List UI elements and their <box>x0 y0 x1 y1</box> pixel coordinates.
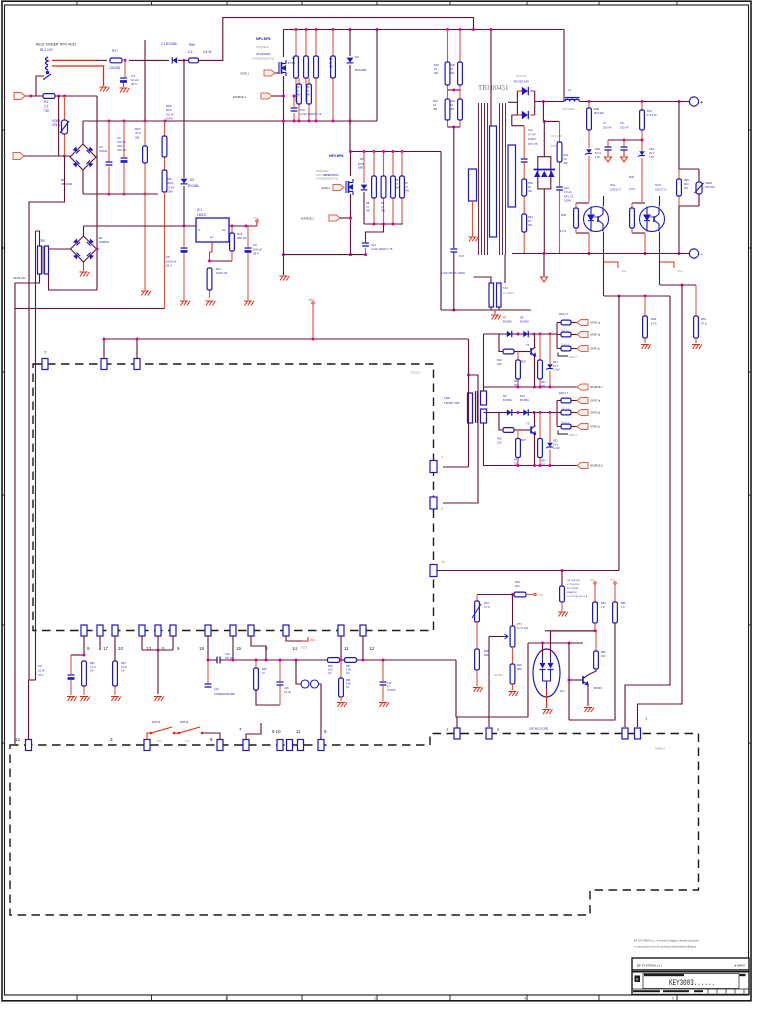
wire aux vertical <box>58 96 60 156</box>
resistor gate GATE 1a <box>557 322 561 324</box>
svg-text:VO: VO <box>222 229 226 232</box>
svg-text:GATE 1: GATE 1 <box>240 72 250 76</box>
wire base feed <box>499 334 503 352</box>
ground <box>154 697 164 702</box>
svg-text:TEST: TEST <box>301 647 308 650</box>
svg-text:4.7 K LIN: 4.7 K LIN <box>517 626 528 630</box>
svg-text:ca. 0801T: ca. 0801T <box>503 292 515 295</box>
connector GATE 2c <box>577 424 588 430</box>
svg-text:R44: R44 <box>528 215 533 219</box>
wire pin16 net <box>437 570 619 572</box>
svg-text:3W: 3W <box>684 186 688 190</box>
resistor R16 300 <box>230 226 235 261</box>
svg-text:WTH2: WTH2 <box>180 720 189 724</box>
pin 10 bottom <box>112 625 118 636</box>
svg-text:35A/600: 35A/600 <box>61 182 73 186</box>
svg-text:BY/08A: BY/08A <box>503 320 512 324</box>
svg-text:IN: IN <box>3 95 6 99</box>
svg-text:BF SYSTEMS s.r.l.: BF SYSTEMS s.r.l. <box>637 964 663 968</box>
zener DZ3 <box>639 151 645 155</box>
svg-text:103-03SAK: 103-03SAK <box>562 108 575 111</box>
svg-text:e comunicare a terzi il conten: e comunicare a terzi il contenuto del pr… <box>634 945 697 949</box>
svg-text:8: 8 <box>210 737 213 742</box>
svg-text:R57: R57 <box>346 665 351 668</box>
svg-text:VCC: VCC <box>610 579 615 582</box>
svg-text:22 uF: 22 uF <box>38 668 45 672</box>
svg-text:R29: R29 <box>517 663 522 667</box>
resistor R49 2.2K <box>632 202 645 204</box>
svg-text:DZ5: DZ5 <box>595 147 600 151</box>
svg-text:12: 12 <box>369 646 375 651</box>
svg-text:R46: R46 <box>684 178 689 182</box>
resistor base T3 <box>503 349 514 354</box>
svg-text:1 W: 1 W <box>595 155 600 159</box>
ground <box>469 237 479 242</box>
pin 4 right <box>430 461 437 473</box>
wire riser x377 <box>376 30 378 122</box>
resistor R28b 560 <box>476 622 478 649</box>
wire VCC bus into TRD <box>104 338 469 340</box>
wire R1 to vertical riser <box>55 95 97 97</box>
bridge rectifier B1 <box>70 144 96 170</box>
svg-text:R61: R61 <box>90 662 95 665</box>
svg-text:C12: C12 <box>387 682 392 685</box>
capacitor C5 1000uF <box>183 226 185 247</box>
svg-text:R3: R3 <box>306 85 310 89</box>
svg-text:GATE 1a: GATE 1a <box>590 322 601 325</box>
svg-text:4.7 K: 4.7 K <box>484 605 490 609</box>
svg-text:1000V: 1000V <box>564 199 572 203</box>
svg-text:2M: 2M <box>135 135 140 139</box>
svg-text:C1 BY/08A: C1 BY/08A <box>161 42 178 46</box>
wire MP3 bank bottom <box>364 223 403 225</box>
svg-text:VCC: VCC <box>253 216 259 220</box>
svg-text:R54: R54 <box>262 668 267 671</box>
resistor gate GATE 2b <box>557 412 561 414</box>
svg-text:R8: R8 <box>366 201 370 205</box>
wire long vertical to pin 1 <box>638 285 683 727</box>
svg-text:R4: R4 <box>292 56 296 60</box>
varistor VDR1 <box>64 96 66 120</box>
svg-text:470nF: 470nF <box>99 149 108 153</box>
svg-text:PT1: PT1 <box>517 622 522 626</box>
connector IN2 <box>13 153 24 160</box>
svg-text:300 1%: 300 1% <box>237 236 247 240</box>
svg-text:GATE 2c: GATE 2c <box>590 426 601 429</box>
wire B2 bottom to ground <box>83 262 85 271</box>
svg-text:W005G: W005G <box>99 240 110 244</box>
ground <box>280 276 290 281</box>
wire pin4b net <box>456 717 458 728</box>
svg-text:R9: R9 <box>381 201 385 205</box>
svg-text:9: 9 <box>87 646 90 651</box>
svg-text:VDR2: VDR2 <box>705 181 712 185</box>
title block bottom row <box>633 990 660 992</box>
svg-text:VCC: VCC <box>677 269 683 273</box>
svg-text:5.0K: 5.0K <box>346 669 351 672</box>
ground arrow <box>605 157 612 162</box>
svg-text:R43: R43 <box>564 153 569 157</box>
ground <box>543 710 553 715</box>
pin 11 bottom <box>338 625 344 636</box>
svg-text:BY/08A: BY/08A <box>520 320 529 324</box>
svg-text:8.2 V: 8.2 V <box>595 151 601 155</box>
pin 12 bottom <box>360 625 366 636</box>
svg-text:10: 10 <box>433 103 436 107</box>
svg-text:275 V: 275 V <box>52 123 61 127</box>
pin 2 box2 <box>622 728 628 739</box>
svg-text:CONDENSATORE: CONDENSATORE <box>214 693 235 696</box>
wire to pin 12 <box>28 680 30 739</box>
svg-text:10: 10 <box>434 67 437 71</box>
ground <box>558 612 568 617</box>
svg-text:20 V: 20 V <box>649 151 655 155</box>
wire DL1 anode A <box>542 643 544 656</box>
wire DC bus minus y194 <box>83 193 158 195</box>
resistor R52 1K2 <box>594 631 599 669</box>
transistor T3 <box>514 351 530 353</box>
wire collector to R52 <box>588 669 596 675</box>
resistor R55b 1K pullup <box>614 582 616 584</box>
svg-text:250 VAC: 250 VAC <box>705 185 715 189</box>
capacitor C6 100uF <box>247 226 249 247</box>
wire emitter to ground <box>587 685 589 706</box>
wire MP3 bottom bus <box>282 254 366 256</box>
svg-text:10 K: 10 K <box>328 669 333 672</box>
connector IN1 <box>14 93 25 100</box>
power stub VCC R30 <box>526 594 533 596</box>
svg-text:DZ2: DZ2 <box>553 440 558 443</box>
wire analog rail y660 <box>220 659 328 661</box>
pins 9 10 box2 <box>277 740 283 751</box>
svg-text:IC1: IC1 <box>197 208 202 212</box>
svg-text:3W: 3W <box>381 209 385 213</box>
svg-text:3K3 3W: 3K3 3W <box>594 111 604 115</box>
wire output plus rail <box>579 101 689 103</box>
pin 8 box2 <box>217 740 223 751</box>
wire mains line 1 <box>25 95 43 97</box>
capacitor C14 <box>366 224 384 242</box>
wire TRD secondary bottom <box>483 423 485 466</box>
resistor gate GATE 2a <box>557 400 561 402</box>
zener DZ1 <box>549 334 551 364</box>
svg-text:GATE 2: GATE 2 <box>321 186 331 190</box>
svg-text:1 K: 1 K <box>621 606 625 609</box>
wire collector <box>534 413 536 426</box>
svg-text:C14: C14 <box>371 243 376 247</box>
wire rectifier to L1 <box>535 101 564 103</box>
svg-text:IXTQ08N50(IXTQ): IXTQ08N50(IXTQ) <box>316 177 338 181</box>
svg-text:25 V: 25 V <box>166 264 172 268</box>
svg-text:1.5uF KP/CS 1000V: 1.5uF KP/CS 1000V <box>441 271 465 275</box>
svg-text:IXTQ06A0: IXTQ06A0 <box>256 45 269 49</box>
svg-text:D13..D15: D13..D15 <box>551 135 562 138</box>
wire join bottom <box>29 679 36 681</box>
pin 11 box2 <box>298 740 304 751</box>
pin 4 box2 <box>454 728 460 739</box>
svg-text:R50: R50 <box>651 317 657 321</box>
title block frame <box>632 958 749 995</box>
svg-text:1000 1%: 1000 1% <box>216 271 228 275</box>
ground <box>244 301 254 306</box>
wire branch to pin 3 <box>443 375 478 503</box>
svg-text:0.5%: 0.5% <box>166 117 173 121</box>
svg-text:3: 3 <box>110 737 113 742</box>
svg-text:di MARIO: di MARIO <box>734 965 745 968</box>
svg-text:7W: 7W <box>44 109 49 113</box>
wire MP3 drain <box>350 152 352 177</box>
svg-text:RL1 12V: RL1 12V <box>40 48 54 52</box>
wire mains down left B <box>35 231 37 680</box>
pin 3 right <box>430 497 437 509</box>
resistors R21 R22 <box>445 91 450 127</box>
svg-text:C9: C9 <box>38 664 42 668</box>
wire pin11 <box>340 636 342 660</box>
wire collector <box>534 334 536 347</box>
svg-text:R34: R34 <box>541 381 546 384</box>
connector GATE 1b <box>577 332 588 338</box>
svg-text:IN: IN <box>3 155 6 159</box>
wire source1 <box>272 95 284 97</box>
svg-text:2: 2 <box>225 996 227 1000</box>
svg-text:3W: 3W <box>528 189 532 193</box>
svg-text:R5: R5 <box>329 57 333 61</box>
wire DL1 anode B <box>550 631 552 656</box>
svg-text:10: 10 <box>118 646 124 651</box>
svg-text:BF SYSTEMS s.r.l. A termini: BF SYSTEMS s.r.l. A termini di legge e v… <box>634 939 699 943</box>
ground <box>80 697 90 702</box>
diode D11 <box>522 87 529 95</box>
svg-text:1000V-: 1000V- <box>528 137 537 141</box>
svg-text:STH15N50: STH15N50 <box>256 52 271 56</box>
pin 18 bottom <box>205 625 211 636</box>
resistors R19 R20 snubber <box>445 30 450 92</box>
node mains1 <box>30 95 33 98</box>
svg-text:1 K 3 W: 1 K 3 W <box>647 113 657 117</box>
svg-text:2.2uF 1000V 1.75: 2.2uF 1000V 1.75 <box>371 247 393 251</box>
svg-text:7: 7 <box>239 727 242 732</box>
ground <box>67 697 77 702</box>
svg-text:D4: D4 <box>355 55 359 59</box>
diode D8 <box>523 331 528 337</box>
pin 15 bottom <box>230 625 236 636</box>
svg-text:70 C: 70 C <box>185 740 190 743</box>
transil diode array D13-D15 box <box>543 121 545 156</box>
svg-text:C10: C10 <box>300 108 305 112</box>
NTC sensor block <box>561 569 564 572</box>
wire base <box>569 679 583 681</box>
capacitor C17 snubber <box>453 127 455 248</box>
ground <box>491 315 501 320</box>
svg-text:MP3.MP6: MP3.MP6 <box>329 154 344 158</box>
svg-text:VCC: VCC <box>310 639 315 642</box>
diode D9 <box>507 409 512 415</box>
capacitor C4 <box>124 60 126 77</box>
wire riser x145 <box>144 40 146 121</box>
svg-text:3: 3 <box>374 996 376 1000</box>
svg-text:40 V: 40 V <box>131 82 137 86</box>
capacitor C9 22uF <box>70 655 72 674</box>
wire pin9 net <box>83 636 85 655</box>
svg-text:LED BIC.: LED BIC. <box>494 675 504 677</box>
svg-text:12: 12 <box>15 737 21 742</box>
capacitor C2 470uF 400V <box>123 121 125 157</box>
svg-text:−: − <box>700 252 703 258</box>
svg-text:ADJ: ADJ <box>210 236 214 239</box>
svg-text:4.7 K: 4.7 K <box>90 666 96 669</box>
svg-text:10 V: 10 V <box>553 443 558 446</box>
svg-text:TRI 00451: TRI 00451 <box>478 84 509 92</box>
svg-text:4: 4 <box>441 455 443 459</box>
capacitor C3 470nF <box>108 121 110 161</box>
svg-text:BYV92-100: BYV92-100 <box>514 80 529 84</box>
svg-text:TWC101: TWC101 <box>410 371 421 375</box>
resistor gate GATE 1b <box>557 334 561 336</box>
wire TRD secondary top <box>483 334 485 391</box>
resistors R56 R57 series <box>328 658 340 663</box>
svg-text:15: 15 <box>236 646 242 651</box>
wire gate rail y334 <box>484 333 558 335</box>
svg-text:OC3: OC3 <box>655 183 661 187</box>
wire TA1 to minus rail <box>504 255 506 284</box>
mosfet MP1 <box>279 60 286 76</box>
diode C1 BY/08A <box>172 57 177 63</box>
resistor base T4 <box>503 428 514 433</box>
svg-text:C11: C11 <box>528 128 533 132</box>
wire DC bus plus y121 <box>83 120 377 122</box>
ground <box>111 697 121 702</box>
wire jumper to pin5 <box>319 684 322 739</box>
resistor R67 body <box>143 121 148 194</box>
svg-text:10 V: 10 V <box>553 365 558 368</box>
resistor R53 5.6K <box>114 636 116 661</box>
wire MP1 source down <box>283 76 285 275</box>
svg-text:WTH1: WTH1 <box>152 720 161 724</box>
wire pin7 stub <box>246 723 261 740</box>
svg-text:17: 17 <box>103 646 109 651</box>
wire base feed <box>499 413 503 431</box>
pin 14 bottom <box>283 625 289 636</box>
diode D4 BTA <box>349 30 351 57</box>
svg-text:C8: C8 <box>620 121 624 125</box>
resistor R17 (relay snubber) <box>110 58 122 63</box>
capacitor C7 <box>607 140 609 146</box>
wire rail to right network <box>456 643 528 717</box>
bracket R29b <box>558 431 568 435</box>
wire input to B1 <box>69 156 71 157</box>
connector GATE 2b <box>577 410 588 416</box>
resistor R50 27K <box>604 295 670 297</box>
resistor R54b 1K pullup <box>594 582 596 584</box>
pin 7 <box>42 359 48 370</box>
ground arrow below rail <box>543 254 545 277</box>
svg-text:BTTA: BTTA <box>358 163 365 166</box>
svg-text:3W: 3W <box>433 107 437 111</box>
wire pin8 jog <box>251 636 266 660</box>
svg-text:C16: C16 <box>225 653 230 656</box>
wire under R54 <box>256 690 280 705</box>
svg-text:2.2: 2.2 <box>44 104 49 108</box>
pin 1 top <box>101 359 107 370</box>
svg-text:11: 11 <box>296 729 301 734</box>
LED bicolor DL1 <box>533 649 560 697</box>
ground <box>641 345 651 350</box>
ground <box>100 87 110 92</box>
svg-text:GATE 1b: GATE 1b <box>590 334 601 337</box>
svg-text:R1: R1 <box>44 100 48 104</box>
wire B2 top to regulator input <box>83 226 85 236</box>
wire emitter to source rail <box>534 356 536 387</box>
pin 9 bottom <box>81 625 87 636</box>
capacitor C16 1.5uF <box>556 187 563 190</box>
svg-text:R47: R47 <box>647 109 652 113</box>
ground <box>379 703 389 708</box>
wire bus A horizontal y308 <box>15 308 165 310</box>
svg-text:CNY17:3: CNY17:3 <box>610 187 621 191</box>
resistor R56 2.2 <box>189 58 199 63</box>
svg-text:2.2uF 1000V 1.75: 2.2uF 1000V 1.75 <box>300 112 322 116</box>
svg-text:3W: 3W <box>306 93 310 97</box>
svg-text:R45: R45 <box>561 213 566 217</box>
pin 3 box2 <box>144 740 150 751</box>
svg-text:R49: R49 <box>629 175 634 179</box>
wire C7 C8 tie <box>608 139 642 141</box>
wire R55 down to bus A <box>164 192 166 309</box>
svg-text:R28 4.7: R28 4.7 <box>559 391 569 395</box>
svg-text:27 K: 27 K <box>651 321 657 325</box>
svg-text:3W: 3W <box>366 209 370 213</box>
svg-text:R30: R30 <box>515 580 520 584</box>
svg-text:6: 6 <box>177 646 180 651</box>
connector GATE 1a <box>577 320 588 326</box>
svg-text:10: 10 <box>450 67 453 71</box>
svg-text:TRASF. IMP.: TRASF. IMP. <box>444 401 460 405</box>
wire R17 to D1 <box>129 59 169 61</box>
svg-text:R2: R2 <box>296 85 300 89</box>
svg-text:18: 18 <box>199 646 205 651</box>
bridge rectifier B2 <box>71 236 97 262</box>
svg-text:25 V: 25 V <box>253 252 259 256</box>
svg-text:1: 1 <box>76 996 78 1000</box>
svg-text:GATE 2b: GATE 2b <box>590 412 601 415</box>
wire OC1 transistor pins <box>603 196 605 206</box>
svg-text:R55: R55 <box>621 602 626 605</box>
svg-text:DZ3: DZ3 <box>649 147 654 151</box>
wire TA1 left <box>474 277 492 283</box>
wire net y630 <box>545 630 597 632</box>
node R17-C4 <box>124 59 127 62</box>
wire emitter to source rail <box>534 435 536 466</box>
wire ADJ node <box>211 242 213 252</box>
wire OC3 transistor pins <box>659 196 661 206</box>
svg-text:LED BICOLORE: LED BICOLORE <box>529 727 548 731</box>
ground arrow <box>621 157 628 162</box>
title block fields <box>635 976 641 983</box>
svg-text:D9: D9 <box>503 394 507 398</box>
wire riser x97 <box>96 96 98 290</box>
pin 12 box2 <box>26 740 32 751</box>
capacitor C15 <box>279 660 281 681</box>
svg-text:3W: 3W <box>434 71 438 75</box>
svg-text:SOURCE 1: SOURCE 1 <box>233 95 247 99</box>
wire gate1 <box>275 72 279 74</box>
svg-text:3W: 3W <box>395 186 399 190</box>
wire TR0 primary <box>36 231 40 246</box>
svg-text:C15: C15 <box>284 687 289 690</box>
wire MP1 drain to bus2 <box>283 30 285 58</box>
svg-text:DL1: DL1 <box>560 690 565 693</box>
trimmer R31 4.7K <box>476 595 478 602</box>
